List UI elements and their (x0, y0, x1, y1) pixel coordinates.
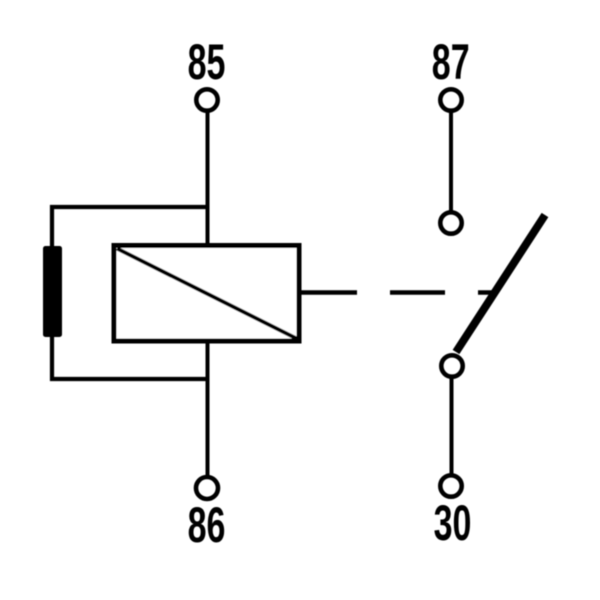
resistor R (parallel) (43, 246, 62, 337)
switch blade (456, 215, 545, 352)
terminal circle 85 (196, 89, 217, 110)
pivot contact circle 30 (441, 355, 462, 376)
svg-text:87: 87 (432, 35, 470, 91)
svg-text:30: 30 (434, 496, 472, 552)
actuator link (dashed) (301, 290, 357, 295)
wire 85 to coil (206, 111, 210, 246)
fixed contact circle 87 (440, 212, 461, 233)
wire coil to 86 (206, 341, 210, 476)
terminal circle 86 (196, 477, 218, 499)
svg-text:86: 86 (188, 498, 226, 554)
wire top horizontal (resistor branch) (52, 207, 208, 379)
wire 30 (450, 377, 454, 476)
relay coil K1 box (114, 246, 299, 342)
wire 87 (449, 111, 453, 213)
terminal circle 30 (440, 475, 461, 496)
coil diagonal (117, 249, 297, 339)
svg-text:85: 85 (188, 35, 226, 91)
terminal circle 87 (440, 89, 461, 110)
